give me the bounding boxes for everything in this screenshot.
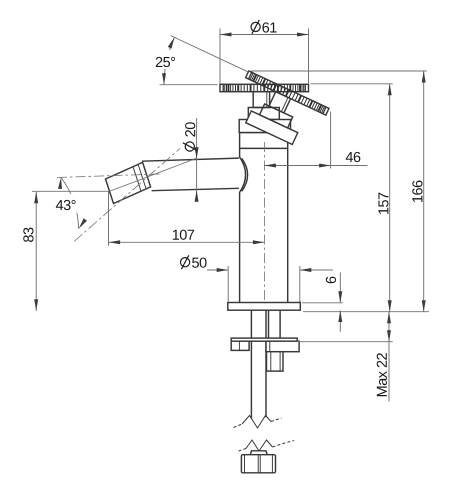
base escutcheon plate [228, 303, 300, 311]
outlet tip axis line [110, 158, 197, 191]
dimension 43° (spray angle) [51, 177, 87, 228]
faucet body (cylinder) [240, 133, 288, 303]
dimension 166 (overall height) [251, 71, 427, 312]
dimension 6 (plate thickness) [302, 272, 343, 331]
spout-body fillet [240, 157, 248, 192]
clamp block right [266, 341, 299, 352]
spout tube [142, 158, 239, 191]
spout outlet tip [106, 162, 151, 203]
mounting nut [267, 352, 284, 371]
vertical centerline [263, 142, 265, 304]
handwheel (tilted 25°) [246, 71, 329, 115]
stem collar (upright) [248, 108, 279, 120]
dimension 46 (handwheel offset) [264, 112, 367, 169]
base reference extension line [303, 311, 429, 313]
clamp block left [231, 341, 249, 350]
dimension Ø61 (handwheel diameter) [220, 20, 309, 84]
dimension 107 (outlet reach) [109, 192, 265, 246]
bonnet cap (upright) [239, 120, 290, 133]
valve stem (upright) [253, 92, 269, 108]
supply hose below plate [251, 310, 266, 418]
dimension Max 22 (clamping range) [297, 312, 393, 402]
dimension 83 (outlet height) [23, 191, 108, 310]
horseshoe washer [231, 338, 297, 341]
hose break symbol [234, 416, 282, 429]
hose crimp collar [250, 451, 267, 455]
valve stem (tilted 25°) [269, 92, 291, 113]
43° spray axis line [74, 149, 180, 242]
handwheel (upright) [220, 84, 309, 91]
dimension 25° (handwheel tilt angle) [151, 36, 249, 85]
dimension 157 (height to wheel) [311, 84, 393, 312]
dimension Ø50 (base diameter) [181, 255, 334, 302]
stem collar (tilted 25°) [260, 104, 293, 128]
hose end nut [241, 455, 275, 473]
bonnet cap (tilted 25°) [246, 111, 298, 144]
hose-end break symbol [239, 440, 295, 451]
threaded mounting stud [269, 310, 281, 341]
dimension Ø20 (spout diameter) [183, 118, 199, 202]
spout centerline [57, 174, 162, 178]
